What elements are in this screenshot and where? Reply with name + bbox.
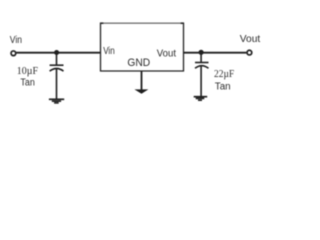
wire U1 ground lead — [141, 71, 143, 90]
node Vout terminal — [247, 50, 252, 55]
wire C2 top lead — [200, 52, 202, 62]
capacitor C1 — [50, 65, 64, 71]
ground GND1 — [49, 99, 64, 103]
junction J1 — [54, 50, 59, 55]
junction J2 — [199, 50, 204, 55]
svg-text:GND: GND — [127, 57, 150, 69]
svg-text:Vout: Vout — [240, 33, 260, 45]
svg-text:Tan: Tan — [215, 81, 231, 92]
wire input — [16, 52, 100, 54]
wire C1 bottom lead — [56, 69, 58, 100]
regulator U1 body — [100, 23, 184, 72]
svg-text:Vin: Vin — [103, 45, 115, 57]
wire C2 bottom lead — [200, 66, 202, 96]
ground GND2 — [194, 97, 208, 101]
capacitor C2 — [195, 63, 209, 69]
svg-text:Tan: Tan — [20, 78, 34, 89]
wire output — [184, 52, 247, 54]
svg-text:22µF: 22µF — [214, 69, 235, 80]
svg-text:Vout: Vout — [157, 47, 176, 59]
ground signal triangle — [134, 89, 148, 93]
node Vin terminal — [11, 51, 16, 56]
svg-text:Vin: Vin — [10, 34, 22, 46]
svg-text:10µF: 10µF — [17, 66, 39, 77]
wire C1 top lead — [56, 53, 58, 66]
